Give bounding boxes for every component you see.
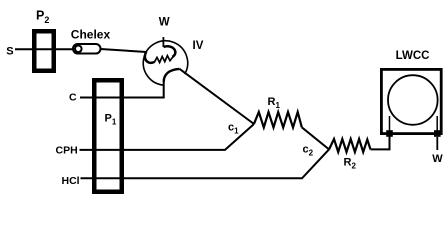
wire C line to valve bottom <box>80 82 164 98</box>
mixing coil R1 <box>254 112 302 128</box>
svg-text:C: C <box>69 91 77 103</box>
flow cell circle <box>388 75 438 125</box>
svg-text:HCl: HCl <box>62 175 80 187</box>
wire R1 to node c2 <box>302 127 329 149</box>
wire W waste line <box>162 37 164 47</box>
svg-text:LWCC: LWCC <box>396 50 430 62</box>
valve top port hook <box>164 46 176 57</box>
wire LWCC waste <box>436 137 438 150</box>
wire valve to node c1 <box>180 69 254 124</box>
valve bottom channel to diagonal <box>164 69 180 82</box>
svg-text:S: S <box>6 46 13 58</box>
wire HCl to node c2 <box>81 149 330 178</box>
wire CPH to node c1 <box>80 124 255 150</box>
valve sample loop zigzag <box>154 56 173 63</box>
injection valve IV circle (gap at lower right) <box>143 41 187 85</box>
valve left port hook <box>145 52 154 63</box>
svg-text:W: W <box>159 17 170 29</box>
pump P2 <box>34 31 54 71</box>
Chelex column body <box>73 44 101 54</box>
svg-text:IV: IV <box>193 40 204 52</box>
flow cell LWCC box <box>381 69 441 133</box>
port outlet (right) <box>434 130 441 137</box>
flow cell right leg <box>436 116 438 133</box>
svg-text:W: W <box>432 153 443 165</box>
Chelex column end cap <box>75 46 82 53</box>
wire Chelex to valve <box>101 49 147 52</box>
pump P1 <box>94 80 122 192</box>
mixing coil R2 <box>329 139 371 152</box>
svg-text:CPH: CPH <box>56 145 78 157</box>
flow cell left leg <box>389 116 391 133</box>
wire S to Chelex column <box>15 48 75 50</box>
svg-text:Chelex: Chelex <box>71 27 111 41</box>
port inlet (left) <box>386 130 393 137</box>
wire R2 to LWCC inlet <box>371 136 390 149</box>
